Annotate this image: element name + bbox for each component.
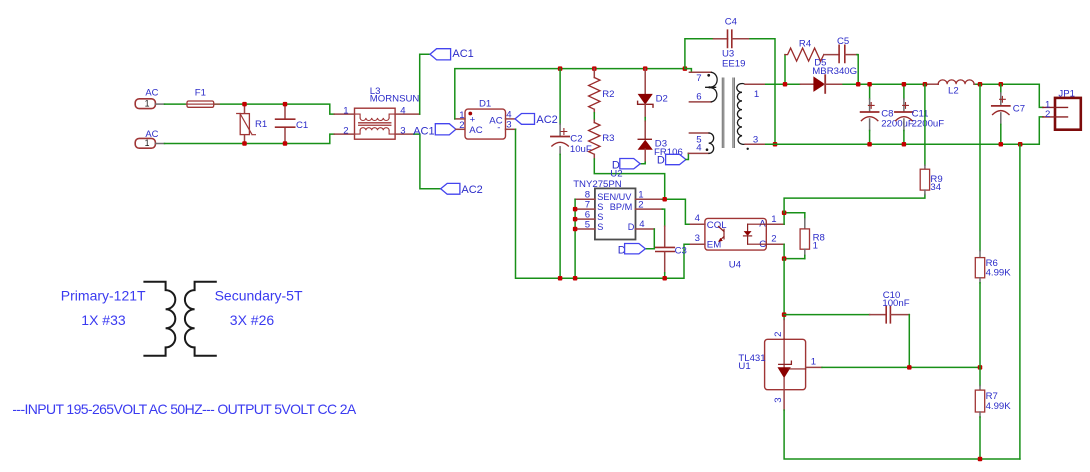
svg-text:AC1: AC1 — [413, 125, 434, 137]
svg-text:D2: D2 — [656, 93, 668, 104]
inductor L3 MORNSUN common-mode choke — [334, 86, 420, 139]
svg-text:3X #26: 3X #26 — [230, 312, 275, 328]
svg-text:+: + — [470, 114, 476, 125]
junction (909.3,367.4) — [907, 365, 912, 370]
junction (575.1,229) — [573, 227, 578, 232]
diode D5 MBR340G — [800, 58, 857, 93]
junction (784.1,212.8) — [782, 211, 787, 216]
svg-text:2200uF: 2200uF — [881, 119, 914, 130]
svg-text:2: 2 — [773, 332, 784, 337]
junction (1000.8,84.2) — [999, 82, 1004, 87]
bridge rectifier D1 — [455, 98, 516, 139]
diode D2 — [638, 69, 668, 118]
junction (1000.8,144.2) — [999, 142, 1004, 147]
svg-text:4: 4 — [400, 105, 406, 116]
svg-text:S: S — [597, 202, 603, 212]
resistor R7 4.99K — [975, 367, 1011, 459]
junction (785,84.2) — [783, 82, 788, 87]
wire bottom return bus — [784, 410, 1020, 459]
capacitor C2 10uF — [551, 69, 592, 279]
transformer U3 EE19 — [685, 49, 766, 154]
junction (869.6,84.2) — [867, 82, 872, 87]
svg-text:1: 1 — [754, 89, 759, 100]
svg-text:AC: AC — [469, 125, 482, 136]
svg-text:S: S — [597, 222, 603, 232]
IC U2 TNY275PN — [573, 168, 662, 239]
svg-text:1X #33: 1X #33 — [81, 312, 126, 328]
junction (575.1,278.3) — [573, 276, 578, 281]
svg-text:1: 1 — [813, 241, 818, 252]
capacitor C8 2200uF — [861, 84, 914, 144]
resistor R4 (snubber) — [785, 39, 824, 85]
svg-text:Primary-121T: Primary-121T — [61, 288, 146, 304]
shunt regulator U1 TL431 — [738, 320, 822, 411]
svg-text:1: 1 — [145, 138, 150, 148]
svg-text:BP/M: BP/M — [610, 202, 632, 212]
svg-text:4: 4 — [696, 143, 702, 154]
wire secondary return rail — [766, 117, 1043, 144]
inductor L2 — [928, 80, 974, 97]
svg-text:---INPUT 195-265VOLT AC 50HZ--: ---INPUT 195-265VOLT AC 50HZ--- OUTPUT 5… — [12, 401, 356, 417]
svg-text:C7: C7 — [1013, 104, 1025, 115]
junction (575.1,219.1) — [573, 217, 578, 222]
svg-text:3: 3 — [400, 125, 405, 136]
wire between R2 and R3 — [593, 113, 595, 120]
svg-text:D: D — [628, 222, 635, 232]
svg-text:EE19: EE19 — [722, 59, 745, 70]
wire feedback column down to TL431 pin2 — [783, 259, 785, 320]
wire L3 pin4 to AC1 flag — [420, 54, 430, 114]
wire opto node up to R9 — [784, 194, 925, 212]
net flag AC1 (top) — [430, 48, 474, 60]
junction (1020.2,144.2) — [1018, 142, 1023, 147]
wire AC line top — [165, 104, 335, 114]
optocoupler U4 — [690, 213, 784, 270]
svg-text:10uF: 10uF — [570, 144, 592, 155]
svg-text:L2: L2 — [948, 86, 959, 97]
connector J-AC bottom (AC 1) — [135, 128, 164, 148]
svg-text:AC1: AC1 — [452, 48, 473, 60]
svg-text:D: D — [657, 154, 665, 166]
capacitor C10 100nF — [784, 290, 910, 367]
svg-text:4.99K: 4.99K — [986, 401, 1012, 412]
wire U2 left pins tie-down — [574, 199, 576, 278]
resistor R2 — [589, 69, 615, 113]
net flag D (at D3) — [612, 159, 640, 172]
fuse F1 — [186, 88, 219, 108]
svg-text:R4: R4 — [799, 39, 812, 50]
svg-text:SEN/UV: SEN/UV — [597, 192, 632, 202]
junction (980,459) — [978, 457, 983, 462]
svg-text:AC: AC — [489, 115, 502, 126]
svg-text:R1: R1 — [255, 119, 267, 130]
junction (903.9,84.2) — [902, 82, 907, 87]
svg-text:2: 2 — [1045, 109, 1050, 120]
capacitor C1 — [276, 104, 309, 143]
svg-text:D1: D1 — [479, 98, 491, 109]
wire U2 pin4 to D flag — [646, 229, 655, 249]
svg-text:-: - — [497, 123, 500, 134]
svg-text:C4: C4 — [725, 17, 738, 28]
wire D1 pin1 to DC+ top bus — [455, 69, 685, 119]
transformer winding note sketch — [144, 282, 215, 356]
svg-text:2200uF: 2200uF — [912, 119, 945, 130]
svg-text:3: 3 — [695, 233, 700, 244]
junction (285,143.5) — [283, 141, 288, 146]
connector JP1 — [1043, 89, 1081, 130]
wire C3 bottom — [664, 273, 666, 279]
junction (869.6,144.2) — [867, 142, 872, 147]
varistor R1 — [237, 104, 268, 143]
svg-text:34: 34 — [930, 182, 941, 193]
svg-text:AC: AC — [145, 87, 158, 98]
capacitor C11 2200uF — [895, 84, 944, 144]
junction (784.1,314.6) — [782, 312, 787, 317]
wire TL431 pin1 to divider — [822, 366, 980, 368]
junction (560.1,278.3) — [558, 276, 563, 281]
svg-text:7: 7 — [696, 73, 701, 84]
resistor R8 — [784, 213, 825, 259]
svg-text:Secundary-5T: Secundary-5T — [215, 288, 303, 304]
junction (575.1,209.1) — [573, 207, 578, 212]
connector J-AC top (AC 1) — [135, 87, 164, 109]
junction (643.3,68.6) — [643, 66, 648, 71]
svg-text:S: S — [597, 212, 603, 222]
junction (684.9,68.6) — [683, 66, 688, 71]
net flag AC2 (bottom) — [441, 183, 483, 195]
capacitor C7 — [992, 84, 1025, 144]
junction (244.5,104.1) — [242, 102, 247, 107]
capacitor C5 (snubber) — [824, 36, 858, 84]
svg-text:JP1: JP1 — [1058, 89, 1075, 100]
svg-text:4.99K: 4.99K — [986, 267, 1012, 278]
svg-text:U4: U4 — [729, 260, 742, 271]
svg-text:U2: U2 — [610, 168, 622, 179]
wire right riser to output return — [1019, 144, 1021, 459]
wire U2 pin2 to C3 — [662, 209, 664, 226]
junction (594.3,68.6) — [592, 66, 597, 71]
svg-text:1: 1 — [343, 105, 348, 116]
resistor R9 34 — [920, 84, 942, 194]
net flag D (to transformer pin 4) — [657, 154, 686, 166]
junction (664.7,278.3) — [662, 276, 667, 281]
wire U2 pin1 node to opto pin4 — [662, 199, 690, 224]
svg-text:1: 1 — [145, 99, 150, 109]
svg-text:R3: R3 — [602, 133, 614, 144]
svg-text:MORNSUN: MORNSUN — [370, 94, 420, 105]
svg-text:6: 6 — [696, 92, 701, 103]
junction (244.5,143.5) — [242, 141, 247, 146]
resistor R3 — [589, 120, 615, 159]
capacitor C4 — [685, 17, 775, 145]
resistor R6 4.99K — [975, 84, 1011, 367]
wire AC line bottom — [165, 134, 335, 143]
svg-text:C5: C5 — [837, 36, 849, 47]
junction (560.1,68.6) — [558, 66, 563, 71]
wire L3 pin3 to AC2 flag (bottom) — [414, 134, 441, 189]
svg-text:3: 3 — [773, 397, 784, 402]
svg-text:2: 2 — [459, 120, 464, 131]
svg-text:2: 2 — [343, 125, 348, 136]
junction (664.7,199.2) — [662, 197, 667, 202]
svg-text:U1: U1 — [738, 361, 750, 372]
svg-text:C1: C1 — [296, 120, 308, 131]
junction (775,144.2) — [773, 142, 778, 147]
junction (285,104.1) — [283, 102, 288, 107]
junction (980,367.4) — [978, 365, 983, 370]
svg-text:1: 1 — [811, 357, 816, 368]
wire opto pin1/pin2 column — [783, 213, 785, 259]
svg-text:C3: C3 — [675, 246, 687, 257]
diode D3 FR106 — [638, 121, 683, 162]
svg-text:F1: F1 — [195, 88, 206, 99]
svg-text:100nF: 100nF — [882, 298, 909, 309]
svg-text:2: 2 — [771, 233, 776, 244]
net flag AC2 (at D1 pin 4) — [515, 114, 558, 126]
junction (784.1,258.6) — [782, 256, 787, 261]
wire D flag to U3 pin 4 — [686, 153, 689, 159]
svg-text:1: 1 — [771, 214, 776, 225]
wire R3 bottom to U2 pin1 node — [594, 159, 664, 199]
net flag D (at U2 drain) — [618, 244, 646, 257]
capacitor C3 — [656, 226, 687, 273]
wire D1 pin3 down and bottom primary bus — [516, 129, 691, 278]
wire +5V top rail — [766, 84, 1043, 107]
svg-text:MBR340G: MBR340G — [812, 66, 857, 77]
svg-text:AC2: AC2 — [461, 184, 482, 196]
junction (858.2,84.2) — [856, 82, 861, 87]
svg-text:TNY275PN: TNY275PN — [573, 179, 622, 190]
svg-text:4: 4 — [695, 213, 701, 224]
svg-text:3: 3 — [753, 134, 758, 145]
junction (980,84.2) — [978, 82, 983, 87]
svg-text:AC2: AC2 — [536, 114, 557, 126]
net flag AC1 (into D1 pin 2) — [413, 124, 465, 138]
wire D3 bottom to D flag — [640, 162, 645, 164]
wire D2-D3 link — [644, 118, 646, 122]
junction (924.9,84.2) — [923, 82, 928, 87]
junction (903.9,144.2) — [902, 142, 907, 147]
svg-text:R2: R2 — [602, 89, 614, 100]
